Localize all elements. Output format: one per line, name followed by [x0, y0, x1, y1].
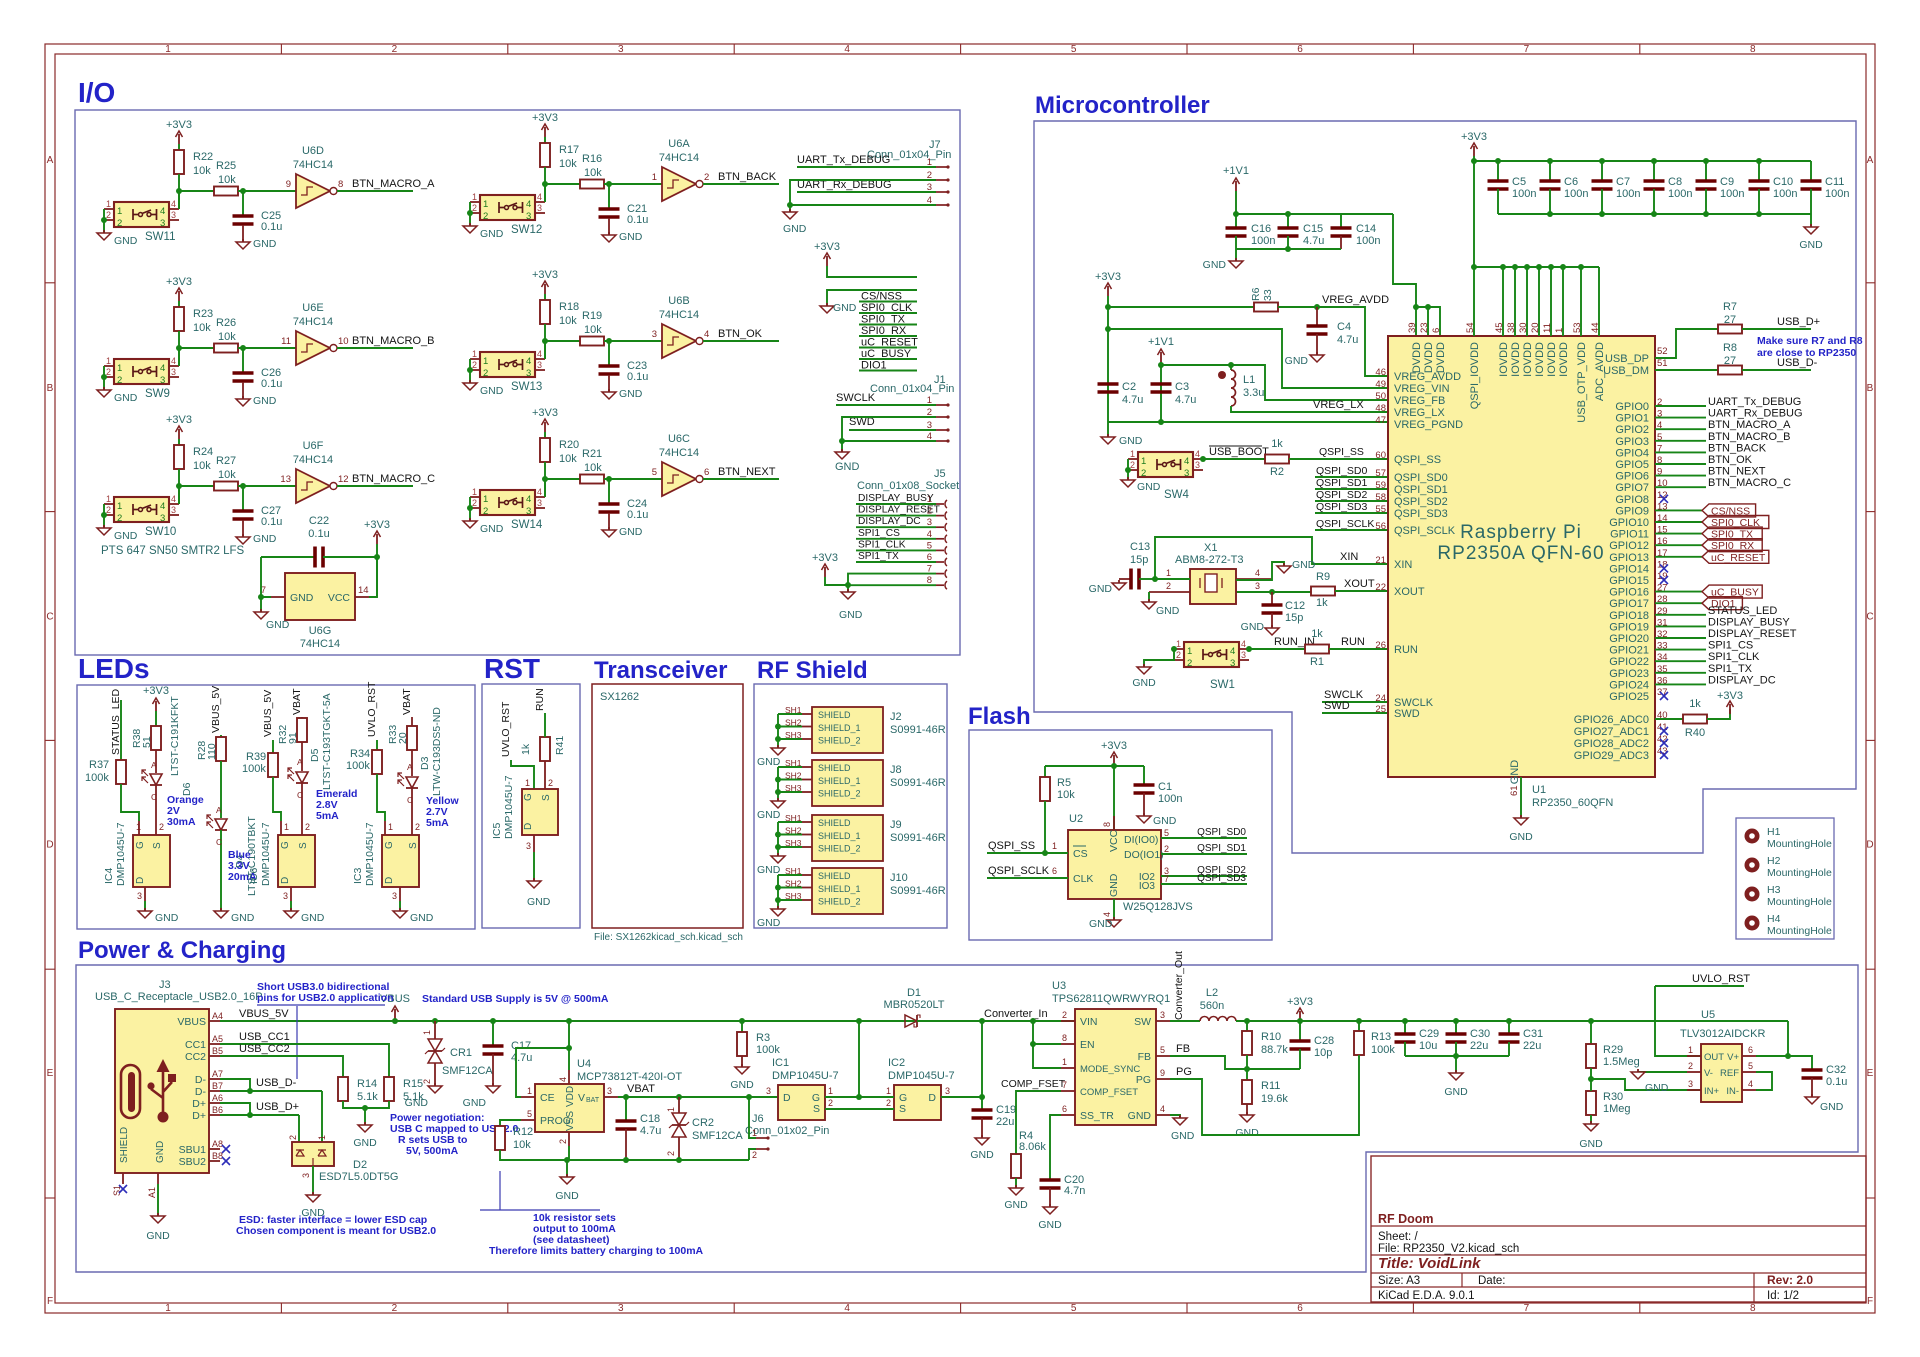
- svg-text:2: 2: [117, 375, 122, 386]
- junction IOVDD drop: [1471, 264, 1477, 270]
- ground below R4: [1004, 1178, 1028, 1211]
- svg-text:10k: 10k: [193, 165, 211, 177]
- no-connect J3 SBU2: [222, 1157, 230, 1165]
- wire R9 to XOUT pin: [1335, 590, 1388, 592]
- ground below SW11: [97, 230, 138, 247]
- svg-text:23: 23: [1419, 322, 1430, 333]
- junction R3 VBUS: [739, 1018, 745, 1024]
- svg-text:SHIELD: SHIELD: [818, 763, 851, 773]
- svg-text:U3: U3: [1052, 980, 1066, 992]
- mounting holes box: [1736, 818, 1834, 939]
- svg-text:J9: J9: [890, 819, 902, 831]
- svg-text:GND: GND: [970, 1149, 994, 1161]
- svg-text:S: S: [813, 1103, 820, 1115]
- junction at R24 bottom: [176, 483, 182, 489]
- svg-text:CR1: CR1: [450, 1047, 472, 1059]
- svg-text:U6A: U6A: [668, 138, 690, 150]
- wire R25 to inverter U6D: [238, 190, 296, 192]
- svg-text:GND: GND: [290, 592, 314, 604]
- svg-text:XOUT: XOUT: [1344, 578, 1375, 590]
- wire U4 PROG to R12: [500, 1120, 521, 1126]
- wire node to R25: [179, 190, 214, 192]
- wire GPIO1 to net label: [1655, 417, 1706, 419]
- svg-text:4: 4: [1195, 449, 1200, 459]
- wire GPIO5 to net label: [1655, 463, 1706, 465]
- svg-text:DMP1045U-7: DMP1045U-7: [115, 822, 127, 886]
- svg-text:1k: 1k: [1311, 628, 1323, 640]
- svg-text:DMP1045U-7: DMP1045U-7: [364, 822, 376, 886]
- svg-text:pins for USB2.0 application: pins for USB2.0 application: [257, 992, 394, 1004]
- connector J5 pin 8: [927, 575, 947, 589]
- svg-text:D: D: [280, 877, 291, 884]
- resistor R29 1.5Meg: [1586, 1021, 1640, 1079]
- svg-text:USB_OTP_VDD: USB_OTP_VDD: [1576, 342, 1588, 423]
- hierarchical label CS/NSS: [1702, 504, 1756, 517]
- svg-text:Size: A3: Size: A3: [1378, 1275, 1420, 1287]
- junction R5 QSPI_SS: [1042, 850, 1048, 856]
- wire IC1 gate to IC2 gate: [825, 1096, 894, 1098]
- flash vcc pin 8: [1113, 816, 1115, 830]
- svg-text:2: 2: [106, 210, 111, 220]
- wire DVDD pin bus: [1416, 307, 1440, 336]
- svg-text:4: 4: [537, 192, 542, 202]
- svg-text:MBR0520LT: MBR0520LT: [884, 999, 945, 1011]
- wire inverter U6D output: [337, 190, 413, 192]
- svg-text:10p: 10p: [1314, 1047, 1332, 1059]
- power +3V3 at R40: [1717, 690, 1743, 714]
- svg-text:GND: GND: [266, 619, 290, 631]
- U5 pin stubs: [1687, 1055, 1701, 1057]
- svg-text:2: 2: [704, 172, 709, 183]
- capacitor C19 22u: [972, 1104, 1017, 1138]
- hierarchical label uC_RESET: [1702, 550, 1769, 563]
- svg-text:DO(IO1): DO(IO1): [1124, 849, 1164, 861]
- wire J7 pin4 to ground: [790, 204, 936, 206]
- svg-text:GPIO6: GPIO6: [1615, 471, 1649, 483]
- wire GPIO22 to net label: [1655, 660, 1706, 662]
- J3 A1 gnd pin: [157, 1173, 159, 1184]
- net label QSPI_SD3 flash pin 7: [1161, 883, 1247, 885]
- IC U3 TPS62811QWRWYRQ1: [1052, 980, 1170, 1125]
- svg-text:+3V3: +3V3: [532, 112, 558, 124]
- svg-text:GND: GND: [114, 530, 138, 542]
- wire U3 SS_TR to C20: [1050, 1115, 1061, 1179]
- wire IOVDD drop: [1514, 267, 1516, 336]
- svg-text:74HC14: 74HC14: [659, 447, 699, 459]
- svg-text:IC5: IC5: [491, 823, 503, 840]
- resistor R7 27: [1718, 301, 1742, 334]
- junction C29 top: [1402, 1018, 1408, 1024]
- svg-text:100n: 100n: [1251, 235, 1275, 247]
- sheet symbol SX1262 transceiver: [592, 684, 743, 928]
- svg-text:V+: V+: [1727, 1052, 1739, 1063]
- ground below C25: [236, 238, 277, 250]
- svg-text:1: 1: [106, 494, 111, 504]
- svg-text:C17: C17: [511, 1040, 531, 1052]
- svg-text:L1: L1: [1243, 374, 1255, 386]
- svg-text:55: 55: [1375, 504, 1386, 515]
- junction C27 tap: [240, 483, 246, 489]
- svg-text:4.7n: 4.7n: [1064, 1185, 1085, 1197]
- hierarchical label SPI0_TX: [1702, 527, 1762, 540]
- wire SW9 pins 1-2 to ground: [103, 366, 105, 390]
- svg-text:0.1u: 0.1u: [261, 516, 282, 528]
- svg-text:Converter_Out: Converter_Out: [1173, 951, 1185, 1020]
- wire J3 A1 to ground: [157, 1184, 159, 1216]
- connector J9 S0991-46R shield: [812, 815, 946, 861]
- J3 S1 shield pin: [122, 1173, 124, 1184]
- svg-text:21: 21: [1375, 555, 1386, 566]
- ground below C21: [602, 231, 643, 243]
- capacitor C27 0.1u: [233, 486, 283, 537]
- svg-text:QSPI_SD0: QSPI_SD0: [1316, 465, 1368, 477]
- junction R29 top: [1588, 1018, 1594, 1024]
- svg-text:U6C: U6C: [668, 433, 690, 445]
- wire USB_D+ to D2 pin2: [298, 1115, 300, 1142]
- switch SW9 PTS647: [104, 356, 179, 400]
- junction C9 top: [1703, 158, 1709, 164]
- capacitor C13 15p: [1119, 541, 1155, 590]
- capacitor C10 100n: [1749, 161, 1798, 214]
- svg-text:USB_DM: USB_DM: [1603, 365, 1649, 377]
- svg-text:GPIO18: GPIO18: [1609, 610, 1649, 622]
- svg-text:SMF12CA: SMF12CA: [692, 1130, 743, 1142]
- svg-text:ESD7L5.0DT5G: ESD7L5.0DT5G: [319, 1171, 398, 1183]
- svg-text:R9: R9: [1316, 571, 1330, 583]
- svg-text:U4: U4: [577, 1058, 591, 1070]
- svg-text:D: D: [384, 877, 395, 884]
- svg-text:R13: R13: [1371, 1031, 1391, 1043]
- svg-text:3: 3: [526, 506, 531, 517]
- svg-text:SW10: SW10: [145, 526, 176, 538]
- svg-text:RF Doom: RF Doom: [1378, 1212, 1434, 1226]
- svg-text:GND: GND: [619, 388, 643, 400]
- wire VBUS_5V rail: [220, 1020, 1033, 1022]
- svg-text:4.7u: 4.7u: [1122, 394, 1143, 406]
- svg-text:59: 59: [1375, 480, 1386, 491]
- svg-text:RP2350_60QFN: RP2350_60QFN: [1532, 797, 1613, 809]
- svg-text:GND: GND: [1235, 1127, 1259, 1139]
- wire USB_CC2 to R14: [220, 1056, 343, 1077]
- svg-text:E: E: [1867, 1068, 1874, 1079]
- svg-text:GND: GND: [1444, 1086, 1468, 1098]
- ground below IC3: [393, 901, 434, 924]
- svg-text:D-: D-: [195, 1086, 207, 1098]
- svg-text:1: 1: [483, 356, 488, 367]
- net label QSPI_SD2 flash pin 3: [1161, 875, 1247, 877]
- junction C4 tap: [1314, 304, 1320, 310]
- svg-text:3: 3: [526, 211, 531, 222]
- svg-text:GPIO12: GPIO12: [1609, 540, 1649, 552]
- ground below U4: [555, 1160, 579, 1202]
- wire U6G VCC to +3V3: [369, 557, 377, 597]
- svg-text:S0991-46R: S0991-46R: [890, 832, 946, 844]
- resistor R2 1k: [1265, 438, 1289, 478]
- resistor R4 8.06k: [1011, 1130, 1046, 1178]
- svg-text:Power & Charging: Power & Charging: [78, 937, 286, 964]
- svg-text:42: 42: [1657, 734, 1668, 745]
- svg-text:GND: GND: [619, 231, 643, 243]
- svg-text:Microcontroller: Microcontroller: [1035, 92, 1210, 119]
- svg-text:6: 6: [1062, 1104, 1067, 1114]
- svg-text:0.1u: 0.1u: [1826, 1076, 1847, 1088]
- svg-text:Date:: Date:: [1478, 1275, 1506, 1287]
- connector J8 S0991-46R shield: [812, 760, 946, 806]
- junction IOVDD drop: [1524, 264, 1530, 270]
- svg-text:10k: 10k: [559, 315, 577, 327]
- ground below C32: [1805, 1094, 1844, 1113]
- svg-text:22u: 22u: [1470, 1040, 1488, 1052]
- svg-text:VCC: VCC: [328, 592, 351, 604]
- wire U5 REF IN- loop: [1756, 1072, 1772, 1090]
- junction C18 CR2 gnd: [623, 1157, 629, 1163]
- svg-text:DMP1045U-7: DMP1045U-7: [503, 775, 515, 839]
- svg-text:2: 2: [548, 778, 553, 788]
- capacitor C7 100n: [1592, 161, 1641, 214]
- wire VBAT to J6 pin1: [749, 1097, 756, 1138]
- svg-text:4: 4: [160, 206, 165, 217]
- ground below R14 R15: [353, 1122, 377, 1149]
- svg-text:C8: C8: [1668, 176, 1682, 188]
- svg-text:GND: GND: [1119, 435, 1143, 447]
- resistor R3 100k: [737, 1021, 780, 1067]
- svg-text:C3: C3: [1175, 381, 1189, 393]
- wire J9 shield pins to ground: [778, 821, 802, 823]
- wire J7 pin3 UART_Rx_DEBUG: [797, 191, 936, 193]
- resistor R39 100k: [242, 751, 278, 777]
- svg-text:1: 1: [1141, 456, 1146, 467]
- inverter gate U6A 74HC14: [652, 138, 710, 201]
- section box Flash: [969, 730, 1272, 940]
- svg-text:GND: GND: [480, 523, 504, 535]
- svg-text:QSPI_SS: QSPI_SS: [1394, 454, 1441, 466]
- wire R29 R30 node to U5 IN+: [1591, 1079, 1701, 1090]
- capacitor C26 0.1u: [233, 348, 283, 399]
- svg-text:D+: D+: [192, 1098, 206, 1110]
- IC U2 W25Q128JVS flash: [1068, 813, 1193, 913]
- LED D3 yellow: [398, 707, 443, 821]
- svg-text:15p: 15p: [1130, 554, 1148, 566]
- svg-text:GPIO4: GPIO4: [1615, 447, 1649, 459]
- svg-text:R19: R19: [582, 310, 602, 322]
- svg-text:SHIELD_2: SHIELD_2: [818, 844, 861, 854]
- junction D+ B6: [247, 1112, 253, 1118]
- IC U5 TLV3012AIDCKR: [1680, 1009, 1765, 1102]
- wire L1 to VREG_LX: [1231, 406, 1388, 412]
- svg-text:1: 1: [483, 199, 488, 210]
- svg-text:FB: FB: [1138, 1051, 1151, 1063]
- power +3V3 stub block: [814, 241, 917, 277]
- svg-text:4.7u: 4.7u: [1175, 394, 1196, 406]
- svg-text:GND: GND: [405, 1097, 429, 1109]
- svg-text:20: 20: [397, 732, 409, 744]
- wire SW12 pins 1-2 to ground: [469, 202, 471, 226]
- connector J8 pin SH2: [802, 779, 812, 781]
- svg-text:SHIELD_1: SHIELD_1: [818, 884, 861, 894]
- svg-text:QSPI_SCLK: QSPI_SCLK: [988, 865, 1050, 877]
- svg-text:GND: GND: [1089, 583, 1113, 595]
- ground below R11: [1235, 1112, 1259, 1139]
- connector J9 pin SH2: [802, 834, 812, 836]
- svg-text:8: 8: [338, 179, 343, 190]
- svg-text:USB_D-: USB_D-: [256, 1077, 297, 1089]
- wire SW11 pins 1-2 to ground: [103, 209, 105, 233]
- svg-text:OUT: OUT: [1704, 1052, 1724, 1063]
- ground left of C13: [1089, 580, 1126, 595]
- power +1V1 for VREG_FB: [1148, 336, 1174, 422]
- svg-text:2: 2: [159, 822, 164, 832]
- wire GPIO13 to hierarchical label: [1655, 556, 1702, 558]
- connector J7 pin 2: [927, 170, 950, 182]
- svg-text:8: 8: [1062, 1033, 1067, 1043]
- svg-text:DI(IO0): DI(IO0): [1124, 834, 1158, 846]
- junction J5 pin8: [845, 582, 851, 588]
- svg-text:VIN: VIN: [1080, 1016, 1098, 1028]
- wire R37 to IC4 gate: [121, 784, 139, 821]
- svg-text:VREG_PGND: VREG_PGND: [1394, 419, 1463, 431]
- svg-text:R26: R26: [216, 317, 236, 329]
- svg-text:11: 11: [281, 336, 291, 347]
- svg-text:Conn_01x02_Pin: Conn_01x02_Pin: [745, 1125, 829, 1137]
- svg-text:DISPLAY_RESET: DISPLAY_RESET: [1708, 628, 1797, 640]
- resistor R34 100k: [346, 748, 382, 774]
- svg-text:UART_Tx_DEBUG: UART_Tx_DEBUG: [797, 154, 890, 166]
- svg-text:5: 5: [1160, 1045, 1165, 1055]
- svg-text:3: 3: [171, 367, 176, 377]
- svg-text:0.1u: 0.1u: [308, 528, 329, 540]
- wire R12 to gnd bus: [500, 1150, 567, 1160]
- connector J2 S0991-46R shield: [812, 707, 946, 753]
- svg-text:Rev: 2.0: Rev: 2.0: [1767, 1273, 1813, 1287]
- svg-text:1: 1: [472, 487, 477, 497]
- svg-text:A: A: [297, 757, 303, 767]
- svg-text:R2: R2: [1270, 466, 1284, 478]
- svg-text:1: 1: [106, 356, 111, 366]
- svg-text:GPIO28_ADC2: GPIO28_ADC2: [1574, 738, 1649, 750]
- wire SW12 pin4 to node: [544, 184, 546, 202]
- resistor R8 27: [1718, 342, 1742, 375]
- svg-text:B8: B8: [212, 1151, 223, 1161]
- svg-text:S: S: [899, 1103, 906, 1115]
- svg-text:D+: D+: [192, 1110, 206, 1122]
- wire SW13 pins 1-2 to ground: [469, 359, 471, 383]
- svg-text:IC4: IC4: [103, 868, 115, 885]
- svg-text:IOVDD: IOVDD: [1510, 342, 1522, 377]
- power +3V3 in flash: [1101, 740, 1127, 830]
- svg-text:GPIO21: GPIO21: [1609, 645, 1649, 657]
- wire IOVDD drop: [1502, 267, 1504, 336]
- wire cap bus bottom: [1236, 248, 1341, 250]
- mounting hole H2: [1745, 855, 1832, 879]
- svg-text:6: 6: [1748, 1045, 1753, 1055]
- svg-text:2: 2: [288, 1135, 298, 1140]
- wire +1V1 cap bus top: [1236, 213, 1393, 215]
- svg-text:GND: GND: [833, 302, 857, 314]
- wire IOVDD drop: [1473, 267, 1475, 336]
- wire J8 shield pins to ground: [778, 766, 802, 768]
- svg-text:U6B: U6B: [668, 295, 689, 307]
- capacitor C29 10u: [1395, 1021, 1440, 1056]
- wire USB_DP to R7: [1655, 329, 1718, 358]
- wire J1 pin3 SWD: [849, 429, 936, 431]
- svg-text:3: 3: [301, 1173, 311, 1178]
- svg-text:VBUS_5V: VBUS_5V: [210, 686, 222, 733]
- svg-text:1: 1: [527, 1086, 532, 1096]
- svg-text:GPIO1: GPIO1: [1615, 413, 1649, 425]
- svg-text:B6: B6: [212, 1105, 223, 1115]
- wire USB_CC1 to R15: [220, 1044, 389, 1077]
- svg-text:1k: 1k: [1271, 438, 1283, 450]
- svg-text:SS_TR: SS_TR: [1080, 1110, 1114, 1122]
- wire GPIO18 to net label: [1655, 614, 1706, 616]
- wire R8 to USB_D-: [1742, 369, 1811, 371]
- svg-text:3: 3: [537, 360, 542, 370]
- svg-text:UVLO_RST: UVLO_RST: [1692, 973, 1750, 985]
- junction DVDD pins: [1413, 304, 1419, 310]
- wire U3 PG to R13: [1170, 1056, 1359, 1135]
- svg-text:+3V3: +3V3: [143, 685, 169, 697]
- svg-text:1: 1: [317, 1135, 327, 1140]
- svg-text:8.06k: 8.06k: [1019, 1141, 1046, 1153]
- wire IOVDD drop: [1538, 267, 1540, 336]
- svg-text:+3V3: +3V3: [814, 241, 840, 253]
- svg-text:R8: R8: [1723, 342, 1737, 354]
- svg-text:0.1u: 0.1u: [261, 378, 282, 390]
- svg-text:R10: R10: [1261, 1031, 1281, 1043]
- svg-text:24: 24: [1375, 693, 1386, 704]
- wire GPIO6 to net label: [1655, 475, 1706, 477]
- svg-text:3: 3: [137, 891, 142, 901]
- capacitor C1 100n: [1134, 766, 1183, 816]
- junction SW12 pin2: [467, 210, 473, 216]
- svg-text:GND: GND: [1153, 815, 1177, 827]
- svg-text:R27: R27: [216, 455, 236, 467]
- junction C23 tap: [606, 338, 612, 344]
- svg-text:+3V3: +3V3: [364, 519, 390, 531]
- wire X1 loop to XIN: [1155, 537, 1388, 579]
- ground below C2: [1101, 422, 1143, 447]
- svg-text:XOUT: XOUT: [1394, 586, 1425, 598]
- svg-text:R34: R34: [350, 748, 370, 760]
- net label QSPI_SD1 flash pin 2: [1161, 853, 1247, 855]
- svg-text:BAT: BAT: [586, 1097, 600, 1104]
- svg-text:3: 3: [618, 44, 624, 55]
- svg-text:GND: GND: [730, 1079, 754, 1091]
- resistor R18 10k pull-up: [540, 294, 579, 327]
- svg-text:QSPI_SD1: QSPI_SD1: [1197, 843, 1246, 854]
- svg-text:DVDD: DVDD: [1411, 342, 1423, 373]
- svg-text:10: 10: [338, 336, 349, 347]
- wire converter_in down: [981, 1021, 983, 1097]
- ground below C19: [970, 1135, 994, 1161]
- ground below J1: [835, 441, 860, 473]
- svg-text:GND: GND: [757, 917, 781, 929]
- svg-text:74HC14: 74HC14: [659, 309, 699, 321]
- connector J8 pin SH3: [802, 791, 812, 793]
- wire VBUS to U3 VIN: [982, 1020, 1075, 1022]
- svg-text:74HC14: 74HC14: [300, 638, 340, 650]
- svg-text:GPIO9: GPIO9: [1615, 505, 1649, 517]
- transistor IC5 DMP1045U-7: [491, 775, 558, 852]
- wire USB_DM to R8: [1655, 369, 1718, 371]
- LED D6 orange: [142, 696, 193, 821]
- wire node to R21: [545, 478, 580, 480]
- svg-text:GPIO19: GPIO19: [1609, 621, 1649, 633]
- capacitor C30 22u: [1446, 1021, 1491, 1056]
- svg-text:6: 6: [1297, 1303, 1303, 1314]
- junction SW14 pin2: [467, 505, 473, 511]
- svg-text:IN+: IN+: [1704, 1086, 1720, 1097]
